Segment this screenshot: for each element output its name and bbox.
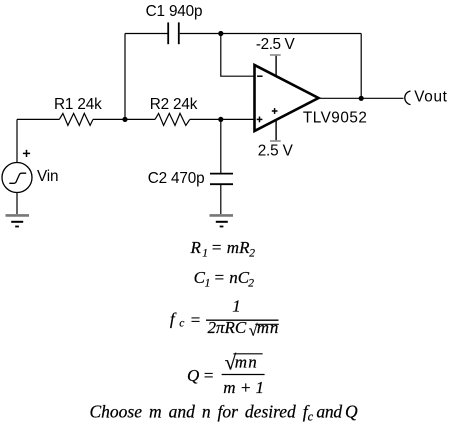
op-amp inverting pin minus sign: [257, 75, 263, 77]
op-amp positive supply plus sign: [272, 108, 278, 114]
svg-text:=: =: [203, 366, 214, 385]
svg-text:R2 24k: R2 24k: [150, 96, 198, 113]
svg-text:=: =: [211, 238, 222, 257]
equation R1 = mR2: [190, 238, 256, 260]
svg-text:Vout: Vout: [414, 89, 447, 106]
source VG1 circle: [2, 163, 32, 193]
equation C1 = nC2: [194, 268, 255, 290]
equation fc = 1 / 2piRC sqrt(mn): [170, 297, 279, 340]
wire top row left to C1: [125, 33, 168, 35]
wire feedback vertical from top row to output: [360, 34, 362, 99]
wire C1 to top right corner: [180, 33, 362, 35]
op-amp non-inverting pin plus sign: [257, 117, 263, 123]
ground below source: [6, 215, 30, 226]
equation Q = sqrt(mn)/(m+1): [187, 350, 265, 397]
wire negative supply pin: [275, 56, 277, 77]
resistor R2: [155, 113, 190, 125]
svg-text:2.5 V: 2.5 V: [258, 142, 294, 159]
svg-text:m + 1: m + 1: [223, 378, 264, 397]
svg-text:=: =: [214, 268, 225, 287]
svg-text:mR: mR: [227, 238, 250, 257]
source VG1 plus sign: [23, 150, 30, 157]
svg-text:TLV9052: TLV9052: [303, 109, 367, 126]
svg-text:-2.5 V: -2.5 V: [256, 36, 296, 53]
node output junction: [359, 96, 364, 101]
power bar 2.5V: [270, 140, 281, 142]
node junction top wire to inverting branch: [218, 31, 223, 36]
svg-text:Choose m and n for desired fc: Choose m and n for desired fc and Q: [90, 401, 358, 423]
svg-text:2πRC: 2πRC: [208, 318, 247, 337]
svg-text:Q: Q: [187, 366, 199, 385]
capacitor C2: [210, 174, 233, 185]
svg-text:1: 1: [202, 248, 208, 260]
wire R1 to R2: [93, 118, 155, 120]
wire positive supply pin: [275, 119, 277, 140]
terminal Vout arc: [405, 91, 411, 105]
resistor R1: [59, 113, 93, 125]
ground below C2: [210, 215, 234, 226]
wire op-amp output: [319, 97, 404, 99]
wire down from top wire to inverting input: [221, 34, 254, 77]
svg-text:2: 2: [249, 248, 255, 260]
svg-text:1: 1: [205, 277, 211, 289]
wire C2 to ground: [220, 184, 222, 214]
wire Vin bottom vertical: [16, 193, 18, 215]
op-amp U1 triangle: [255, 65, 319, 131]
svg-text:mn: mn: [235, 352, 258, 371]
svg-text:=: =: [190, 310, 201, 329]
svg-text:R1 24k: R1 24k: [54, 96, 102, 113]
caption Choose m and n for desired fc and Q: [90, 401, 358, 423]
svg-text:C2 470p: C2 470p: [148, 170, 205, 187]
wire junction down to C2: [220, 119, 222, 173]
svg-text:R: R: [190, 238, 202, 257]
svg-text:Vin: Vin: [37, 168, 58, 185]
source VG1 waveform symbol: [9, 173, 26, 183]
power bar -2.5V: [270, 54, 281, 56]
node junction R1-R2: [122, 117, 127, 122]
svg-text:mn: mn: [257, 318, 279, 337]
wire vertical junction to top row: [124, 34, 126, 120]
svg-text:c: c: [179, 317, 184, 329]
svg-text:C1 940p: C1 940p: [146, 3, 203, 20]
svg-text:2: 2: [248, 277, 254, 289]
svg-text:nC: nC: [229, 268, 250, 287]
node junction R2 to C2 and plus input: [218, 117, 223, 122]
svg-text:1: 1: [232, 297, 241, 316]
wire input row: Vin to R1: [17, 118, 59, 120]
capacitor C1: [168, 22, 179, 44]
wire R2 to op-amp plus input: [190, 118, 254, 120]
wire Vin top vertical: [16, 119, 18, 162]
svg-text:f: f: [170, 310, 177, 329]
